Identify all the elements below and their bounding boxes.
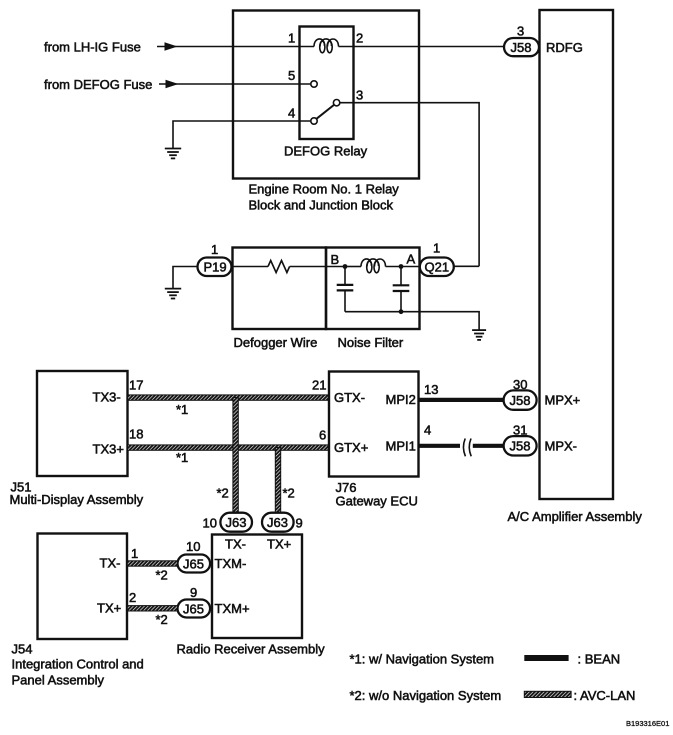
svg-text:*2: w/o Navigation System: *2: w/o Navigation System: [350, 688, 502, 703]
svg-text:Integration Control and: Integration Control and: [12, 657, 144, 672]
svg-text:Radio Receiver Assembly: Radio Receiver Assembly: [177, 642, 326, 657]
J51 Multi-Display Assembly box: [37, 371, 128, 476]
svg-text:*1: w/ Navigation System: *1: w/ Navigation System: [350, 652, 495, 667]
AVC-LAN dropper from TX3+ wire to J63 (hatched): [275, 448, 280, 513]
wire from DEFOG fuse to relay pin 5: [159, 83, 311, 85]
svg-text:J58: J58: [510, 439, 531, 454]
pin 4 contact circle: [311, 118, 317, 124]
svg-text:21: 21: [312, 378, 326, 393]
wire Q21 to vertical riser: [454, 265, 479, 267]
svg-text:: AVC-LAN: : AVC-LAN: [574, 688, 636, 703]
Noise Filter box: [326, 248, 420, 330]
legend AVC-LAN line sample (hatched): [524, 691, 571, 697]
J63 connector oval left: [220, 513, 252, 532]
arrowhead DEFOG: [166, 80, 179, 89]
svg-text:B: B: [331, 252, 340, 267]
svg-text:*1: *1: [176, 402, 188, 417]
svg-text:Panel Assembly: Panel Assembly: [12, 673, 105, 688]
capacitor C2 plates: [393, 284, 410, 286]
svg-text:10: 10: [203, 516, 217, 531]
svg-text:18: 18: [129, 427, 143, 442]
AVC-LAN dropper from TX3- wire to J63 (hatched): [233, 398, 238, 513]
svg-text:MPX+: MPX+: [545, 393, 581, 408]
noise filter inductor: [361, 259, 386, 267]
svg-text:J65: J65: [183, 601, 204, 616]
svg-text:Defogger Wire: Defogger Wire: [234, 335, 318, 350]
svg-text:6: 6: [319, 428, 326, 443]
svg-text:Block and Junction Block: Block and Junction Block: [249, 198, 394, 213]
svg-text:TX-: TX-: [225, 537, 246, 552]
pin 3 contact circle: [333, 100, 339, 106]
wire pin2 to J58: [339, 46, 505, 48]
J65 connector oval upper: [178, 555, 211, 573]
svg-text:10: 10: [186, 539, 200, 554]
Engine Room No. 1 Relay Block box: [233, 11, 419, 179]
svg-text:TX3+: TX3+: [93, 442, 124, 457]
legend BEAN line sample: [524, 655, 568, 661]
svg-text:Q21: Q21: [425, 260, 450, 275]
svg-text:9: 9: [190, 585, 197, 600]
SECTION: lower network: [10, 371, 581, 688]
svg-text:1: 1: [131, 546, 138, 561]
DEFOG Relay box: [300, 27, 354, 140]
svg-text:TX3-: TX3-: [93, 390, 121, 405]
node A junction dot: [399, 264, 404, 269]
svg-text:*2: *2: [156, 568, 168, 583]
svg-text:3: 3: [517, 24, 524, 39]
wire inductor to node A and Q21: [386, 266, 421, 268]
svg-text:1: 1: [288, 31, 295, 46]
svg-text:J58: J58: [511, 40, 532, 55]
svg-text:17: 17: [129, 378, 143, 393]
ground (relay pin 4): [165, 149, 181, 159]
svg-text:A: A: [407, 252, 416, 267]
Q21 connector oval: [420, 258, 454, 277]
svg-text:from DEFOG Fuse: from DEFOG Fuse: [44, 77, 152, 92]
svg-text:*2: *2: [217, 486, 229, 501]
svg-text:TX-: TX-: [100, 556, 121, 571]
J65 connector oval lower: [178, 600, 211, 618]
SECTION: middle defogger/noise filter: [165, 241, 486, 351]
J58 connector oval (MPX-): [504, 436, 537, 455]
svg-text:P19: P19: [204, 260, 227, 275]
svg-text:2: 2: [129, 590, 136, 605]
svg-text:2: 2: [356, 31, 363, 46]
AVC-LAN wire TX+ to J65 (hatched): [127, 606, 177, 611]
J54 Integration Control box: [38, 534, 128, 640]
P19 connector oval: [198, 258, 232, 277]
Defogger Wire box: [233, 248, 327, 330]
rail junction dot: [399, 309, 404, 314]
wire node B to inductor: [345, 266, 361, 268]
svg-text:RDFG: RDFG: [546, 40, 583, 55]
svg-text:J63: J63: [226, 515, 247, 530]
svg-text:1: 1: [211, 242, 218, 257]
svg-text:5: 5: [288, 68, 295, 83]
Radio Receiver Assembly box: [212, 535, 302, 639]
pin 5 contact circle: [311, 81, 317, 87]
node B junction dot: [343, 264, 348, 269]
svg-text:Engine Room No. 1 Relay: Engine Room No. 1 Relay: [249, 182, 400, 197]
ground (noise filter): [472, 330, 486, 340]
J76 Gateway ECU box: [329, 372, 419, 477]
svg-text:A/C Amplifier Assembly: A/C Amplifier Assembly: [508, 509, 643, 524]
svg-text:J63: J63: [267, 515, 288, 530]
svg-text:*2: *2: [156, 612, 168, 627]
wire break symbol: [463, 439, 471, 457]
svg-text:MPX-: MPX-: [545, 439, 578, 454]
svg-text:3: 3: [356, 88, 363, 103]
svg-text:GTX+: GTX+: [334, 440, 368, 455]
capacitor C1 lead: [344, 267, 346, 285]
svg-text:MPI1: MPI1: [386, 439, 416, 454]
wire from LH-IG fuse to relay coil pin 1: [157, 46, 314, 48]
svg-text:from LH-IG Fuse: from LH-IG Fuse: [44, 40, 141, 55]
AVC-LAN wire TX3+ to GTX+ (hatched): [128, 445, 330, 450]
svg-text:DEFOG Relay: DEFOG Relay: [284, 144, 368, 159]
svg-text:Multi-Display Assembly: Multi-Display Assembly: [10, 492, 144, 507]
wire pin4 to ground: [173, 121, 311, 149]
wire pin3 to right and down to Q21: [340, 103, 479, 267]
svg-text:GTX-: GTX-: [334, 390, 365, 405]
J58 connector oval (RDFG pin 3): [504, 38, 539, 56]
svg-text:4: 4: [424, 423, 431, 438]
resistor (defogger wire): [268, 261, 290, 273]
svg-text:*2: *2: [283, 486, 295, 501]
svg-text:13: 13: [424, 382, 438, 397]
relay coil: [314, 39, 339, 47]
BEAN wire MPI2 to J58: [419, 398, 504, 402]
svg-text:Noise Filter: Noise Filter: [338, 335, 404, 350]
svg-text:: BEAN: : BEAN: [578, 652, 621, 667]
switch blade pin4 to pin3: [317, 105, 334, 119]
svg-text:TX+: TX+: [267, 537, 291, 552]
svg-text:TXM+: TXM+: [215, 601, 250, 616]
arrowhead LH-IG: [165, 42, 178, 51]
SECTION: legend: [350, 652, 670, 729]
svg-text:MPI2: MPI2: [386, 392, 416, 407]
AVC-LAN wire TX- to J65 (hatched): [127, 561, 177, 566]
svg-text:TXM-: TXM-: [215, 556, 247, 571]
J63 connector oval right: [262, 513, 294, 532]
BEAN wire MPI1 to J58 (with break): [419, 444, 460, 448]
wire P19 to resistor: [232, 266, 269, 268]
svg-text:TX+: TX+: [97, 601, 121, 616]
svg-text:4: 4: [288, 106, 295, 121]
svg-text:J65: J65: [183, 556, 204, 571]
SECTION: top relay block: [44, 10, 642, 524]
svg-text:*1: *1: [176, 450, 188, 465]
wire P19 to left ground: [173, 267, 198, 289]
A/C Amplifier Assembly box: [540, 10, 614, 499]
capacitor C1 plates: [337, 284, 354, 286]
AVC-LAN wire TX3- to GTX- (hatched): [128, 395, 330, 400]
svg-text:J54: J54: [12, 642, 33, 657]
svg-text:J58: J58: [510, 393, 531, 408]
J58 connector oval (MPX+): [504, 390, 537, 409]
svg-text:Gateway ECU: Gateway ECU: [336, 494, 418, 509]
wire resistor to node B: [290, 266, 345, 268]
svg-text:9: 9: [296, 516, 303, 531]
svg-text:B193316E01: B193316E01: [626, 719, 669, 728]
capacitor C2 lead: [400, 267, 402, 286]
ground (defogger wire): [165, 289, 181, 299]
svg-text:1: 1: [433, 241, 440, 256]
ground rail under capacitors: [345, 312, 479, 330]
